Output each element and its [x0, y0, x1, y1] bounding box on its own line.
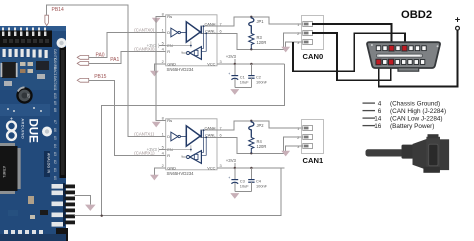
- junction 3V3: [101, 215, 103, 217]
- ground GND pin: [150, 175, 159, 181]
- ground GND pin: [150, 71, 159, 77]
- ground symbol (board GND): [85, 205, 96, 211]
- svg-text:A3: A3: [53, 152, 57, 156]
- EN internal: [166, 145, 191, 151]
- svg-text:ANALOG IN: ANALOG IN: [47, 153, 51, 174]
- mounting hole mid: [42, 127, 52, 137]
- pin names inside: [167, 14, 216, 66]
- svg-text:1: 1: [297, 22, 299, 27]
- OBD2 pin row top: [376, 45, 426, 51]
- via dots: [7, 107, 42, 112]
- svg-text:(CAN Low J-2284): (CAN Low J-2284): [390, 115, 443, 122]
- wire GND from board: [75, 196, 91, 205]
- svg-text:CAN1: CAN1: [303, 156, 324, 165]
- power labels white boxes: [52, 184, 64, 227]
- svg-text:+3V3: +3V3: [226, 54, 237, 59]
- connector CAN0: [297, 16, 323, 61]
- passives: [20, 62, 26, 66]
- ANALOG IN bar: [44, 151, 50, 177]
- electrolytic capacitor: [16, 87, 32, 103]
- OBD2 cable photo: [366, 134, 450, 173]
- +3V3 supply symbol: [226, 158, 237, 168]
- wire caps join: [235, 191, 252, 193]
- OBD2 screw left: [371, 44, 373, 46]
- svg-text:+3V3 ): +3V3 ): [147, 43, 160, 48]
- receiver input drops: [202, 130, 204, 152]
- CANL internal wire: [201, 136, 217, 138]
- wire PA0 to CAN0 D (CANTX0): [89, 33, 166, 58]
- svg-text:A1: A1: [53, 168, 57, 172]
- wire connector pin3 to ground: [286, 42, 303, 47]
- svg-text:D: D: [167, 30, 170, 35]
- silkscreen number row: [2, 28, 48, 59]
- svg-text:PA1: PA1: [110, 57, 119, 63]
- EN internal: [166, 41, 191, 47]
- VCC rail wire: [217, 167, 285, 169]
- resistor R4 120R: [249, 138, 267, 154]
- svg-text:8: 8: [162, 116, 164, 121]
- svg-text:+: +: [228, 72, 230, 76]
- svg-text:ARDUINO: ARDUINO: [21, 119, 26, 140]
- top pin header: [0, 31, 52, 48]
- wire CAN high (CAN0 pin1 to OBD2 pin6): [312, 24, 392, 47]
- net PA1 (label + pin flag): [77, 57, 119, 65]
- net PA0 (label + pin flag): [77, 52, 105, 59]
- svg-text:1: 1: [162, 132, 164, 137]
- net PB14 (label + pin flag): [45, 7, 64, 26]
- svg-text:A9: A9: [53, 101, 57, 105]
- node VCC/C3: [234, 167, 236, 169]
- receiver output jog: [182, 52, 187, 54]
- svg-text:A0: A0: [53, 176, 57, 180]
- svg-text:JP1: JP1: [257, 19, 265, 24]
- pin numbers right: [220, 125, 222, 168]
- svg-text:5: 5: [162, 41, 164, 46]
- pin numbers right: [220, 21, 222, 64]
- pin 8 Rs wire: [156, 16, 166, 17]
- receiver triangle: [190, 151, 202, 164]
- wire CANL to connector pin2: [217, 33, 303, 49]
- OBD2 pin row bottom: [376, 59, 425, 65]
- OBD2 pin legend: [363, 100, 447, 130]
- op-amp U1 transceiver SN65HVD234 box: [166, 15, 217, 72]
- CANH internal wire: [201, 25, 217, 27]
- Arduino Due board photo: [0, 26, 75, 241]
- svg-text:DAC0: DAC0: [53, 76, 57, 85]
- wire caps join: [235, 87, 252, 89]
- svg-text:6: 6: [220, 29, 222, 34]
- svg-text:A8: A8: [53, 108, 57, 112]
- svg-text:100nF: 100nF: [256, 79, 268, 84]
- resistor R3 120R: [249, 34, 267, 50]
- svg-text:100nF: 100nF: [256, 183, 268, 188]
- svg-text:DUE: DUE: [27, 119, 39, 144]
- ground caps: [231, 88, 240, 95]
- +3V3 rail loop wire (VCC1 to VCC2): [102, 64, 285, 216]
- svg-text:CANH: CANH: [204, 125, 215, 130]
- svg-text:(Chassis Ground): (Chassis Ground): [390, 100, 440, 107]
- op-amp U2 transceiver SN65HVD234 box: [166, 119, 217, 176]
- wire connector pin3 to ground: [286, 146, 303, 151]
- svg-text:14: 14: [374, 115, 382, 122]
- svg-text:A7: A7: [53, 120, 57, 124]
- PCB body: [0, 26, 66, 241]
- svg-text:A4: A4: [53, 144, 57, 148]
- jumper JP2: [249, 121, 265, 138]
- svg-text:3: 3: [220, 59, 222, 64]
- svg-text:VCC: VCC: [207, 62, 215, 67]
- svg-text:5: 5: [162, 145, 164, 150]
- svg-text:+: +: [10, 117, 13, 123]
- svg-text:2: 2: [297, 31, 299, 36]
- VCC rail wire: [217, 63, 285, 65]
- svg-text:4: 4: [378, 100, 382, 107]
- svg-text:A11: A11: [53, 85, 57, 91]
- wire CANH to connector pin1: [217, 121, 303, 130]
- wire 3.3V from board: [75, 168, 281, 216]
- svg-text:8: 8: [162, 12, 164, 17]
- svg-text:Rs: Rs: [167, 118, 172, 123]
- svg-text:+: +: [455, 14, 461, 25]
- svg-text:7: 7: [220, 21, 222, 26]
- node termination bottom: [250, 152, 252, 154]
- svg-text:7: 7: [220, 125, 222, 130]
- svg-text:+: +: [228, 176, 230, 180]
- connector CAN1: [297, 120, 324, 165]
- svg-text:A2: A2: [53, 160, 57, 164]
- wire battery power (OBD2 pin16 to +): [379, 30, 458, 87]
- node termination top: [250, 16, 252, 18]
- pin 5 EN stub + 3V3 label: [159, 149, 166, 151]
- node VCC/C2: [250, 63, 252, 65]
- wire CANL to connector pin2: [217, 137, 303, 153]
- svg-text:DAC1: DAC1: [53, 67, 57, 76]
- svg-text:A6: A6: [53, 128, 57, 132]
- svg-text:D: D: [167, 134, 170, 139]
- node termination bottom: [250, 48, 252, 50]
- svg-text:1: 1: [297, 126, 299, 131]
- svg-text:6: 6: [220, 133, 222, 138]
- svg-text:2: 2: [162, 163, 164, 168]
- svg-text:+3V3 ): +3V3 ): [147, 147, 160, 152]
- svg-text:120R: 120R: [257, 40, 267, 45]
- right edge female header: [60, 47, 67, 178]
- svg-text:PB15: PB15: [94, 74, 106, 80]
- pin labels left: [162, 12, 165, 65]
- svg-text:(CANTX1): (CANTX1): [134, 132, 154, 137]
- wire chassis ground (CAN0 pin3 to OBD2 pin4): [293, 33, 405, 71]
- svg-text:OBD2: OBD2: [401, 9, 432, 21]
- svg-text:PB14: PB14: [52, 7, 64, 13]
- svg-text:120R: 120R: [257, 144, 267, 149]
- svg-text:R: R: [167, 49, 170, 54]
- CANL internal wire: [201, 32, 217, 34]
- power header pins: [65, 185, 76, 225]
- svg-text:3: 3: [220, 163, 222, 168]
- svg-text:SN65HVD234: SN65HVD234: [167, 67, 195, 72]
- svg-text:47: 47: [26, 94, 31, 99]
- wire CAN low (CAN0 pin2 to OBD2 pin14): [312, 33, 391, 80]
- capacitor C3 10uF: [228, 168, 249, 192]
- CANH internal wire: [201, 129, 217, 131]
- svg-text:ATMEL: ATMEL: [2, 166, 6, 178]
- mounting hole top: [57, 38, 67, 48]
- capacitor C1 10uF: [228, 64, 249, 88]
- node termination top: [250, 120, 252, 122]
- receiver output jog: [182, 156, 187, 158]
- Arduino infinity logo (rotated): [7, 122, 16, 140]
- wire PB14 to CAN1 D (CANTX1): [47, 5, 166, 137]
- input buffer triangle: [171, 132, 178, 141]
- right edge pin labels rotated: [53, 49, 57, 180]
- ground Rs: [152, 122, 161, 128]
- ground caps: [231, 192, 240, 199]
- svg-text:R: R: [167, 153, 170, 158]
- ground connector pin3: [281, 47, 290, 53]
- svg-text:CANH: CANH: [204, 21, 215, 26]
- pin labels left: [162, 116, 165, 169]
- ground connector pin3: [281, 151, 290, 157]
- input buffer triangle: [171, 28, 178, 37]
- MCU chip: [0, 146, 18, 191]
- receiver triangle: [190, 47, 202, 60]
- svg-text:Rs: Rs: [167, 14, 172, 19]
- node VCC/C1: [234, 63, 236, 65]
- svg-text:6: 6: [378, 108, 382, 115]
- svg-text:16: 16: [374, 123, 382, 130]
- receiver input drops: [202, 26, 204, 48]
- svg-text:CAN0: CAN0: [303, 52, 324, 61]
- OBD2 female connector drawing: [367, 42, 440, 71]
- svg-text:(Battery Power): (Battery Power): [390, 123, 434, 130]
- wire PA1 to CAN0 R (CANRX0): [89, 52, 166, 64]
- svg-text:JP2: JP2: [257, 123, 265, 128]
- jumper JP1: [249, 17, 265, 34]
- pin 2 GND wire: [154, 168, 165, 175]
- capacitor C4 100nF: [248, 168, 267, 192]
- wire CANH to connector pin1: [217, 17, 303, 26]
- battery + terminal: [455, 14, 461, 30]
- svg-text:10uF: 10uF: [240, 79, 249, 84]
- bottom dark corner: [56, 228, 68, 241]
- svg-text:2: 2: [297, 135, 299, 140]
- ground Rs: [152, 18, 161, 24]
- svg-text:10uF: 10uF: [240, 183, 249, 188]
- svg-text:GND: GND: [167, 62, 176, 67]
- wire PB15 to CAN1 R (CANRX1): [89, 80, 166, 155]
- svg-text:GND: GND: [167, 166, 176, 171]
- svg-text:+3V3: +3V3: [226, 158, 237, 163]
- driver triangle: [186, 126, 200, 146]
- svg-text:2: 2: [162, 59, 164, 64]
- svg-text:VCC: VCC: [207, 166, 215, 171]
- pin 2 GND wire: [154, 64, 165, 71]
- small parts bottom: [28, 196, 34, 204]
- capacitor C2 100nF: [248, 64, 267, 88]
- pin 8 Rs wire: [156, 18, 166, 121]
- svg-text:1: 1: [162, 28, 164, 33]
- net PB15 (label + pin flag): [77, 74, 106, 82]
- +3V3 supply symbol: [226, 54, 237, 64]
- SOIC chip: [2, 62, 16, 78]
- node VCC/C4: [250, 167, 252, 169]
- svg-text:(CAN High (J-2284): (CAN High (J-2284): [390, 108, 446, 115]
- pin 5 EN stub + 3V3 label: [159, 45, 166, 47]
- svg-text:A5: A5: [53, 136, 57, 140]
- pin names inside: [167, 118, 216, 170]
- svg-text:(CANTX0): (CANTX0): [134, 28, 154, 33]
- OBD2 screw right: [437, 45, 439, 47]
- svg-text:SN65HVD234: SN65HVD234: [167, 171, 195, 176]
- svg-text:A10: A10: [53, 93, 57, 99]
- driver triangle: [186, 22, 200, 42]
